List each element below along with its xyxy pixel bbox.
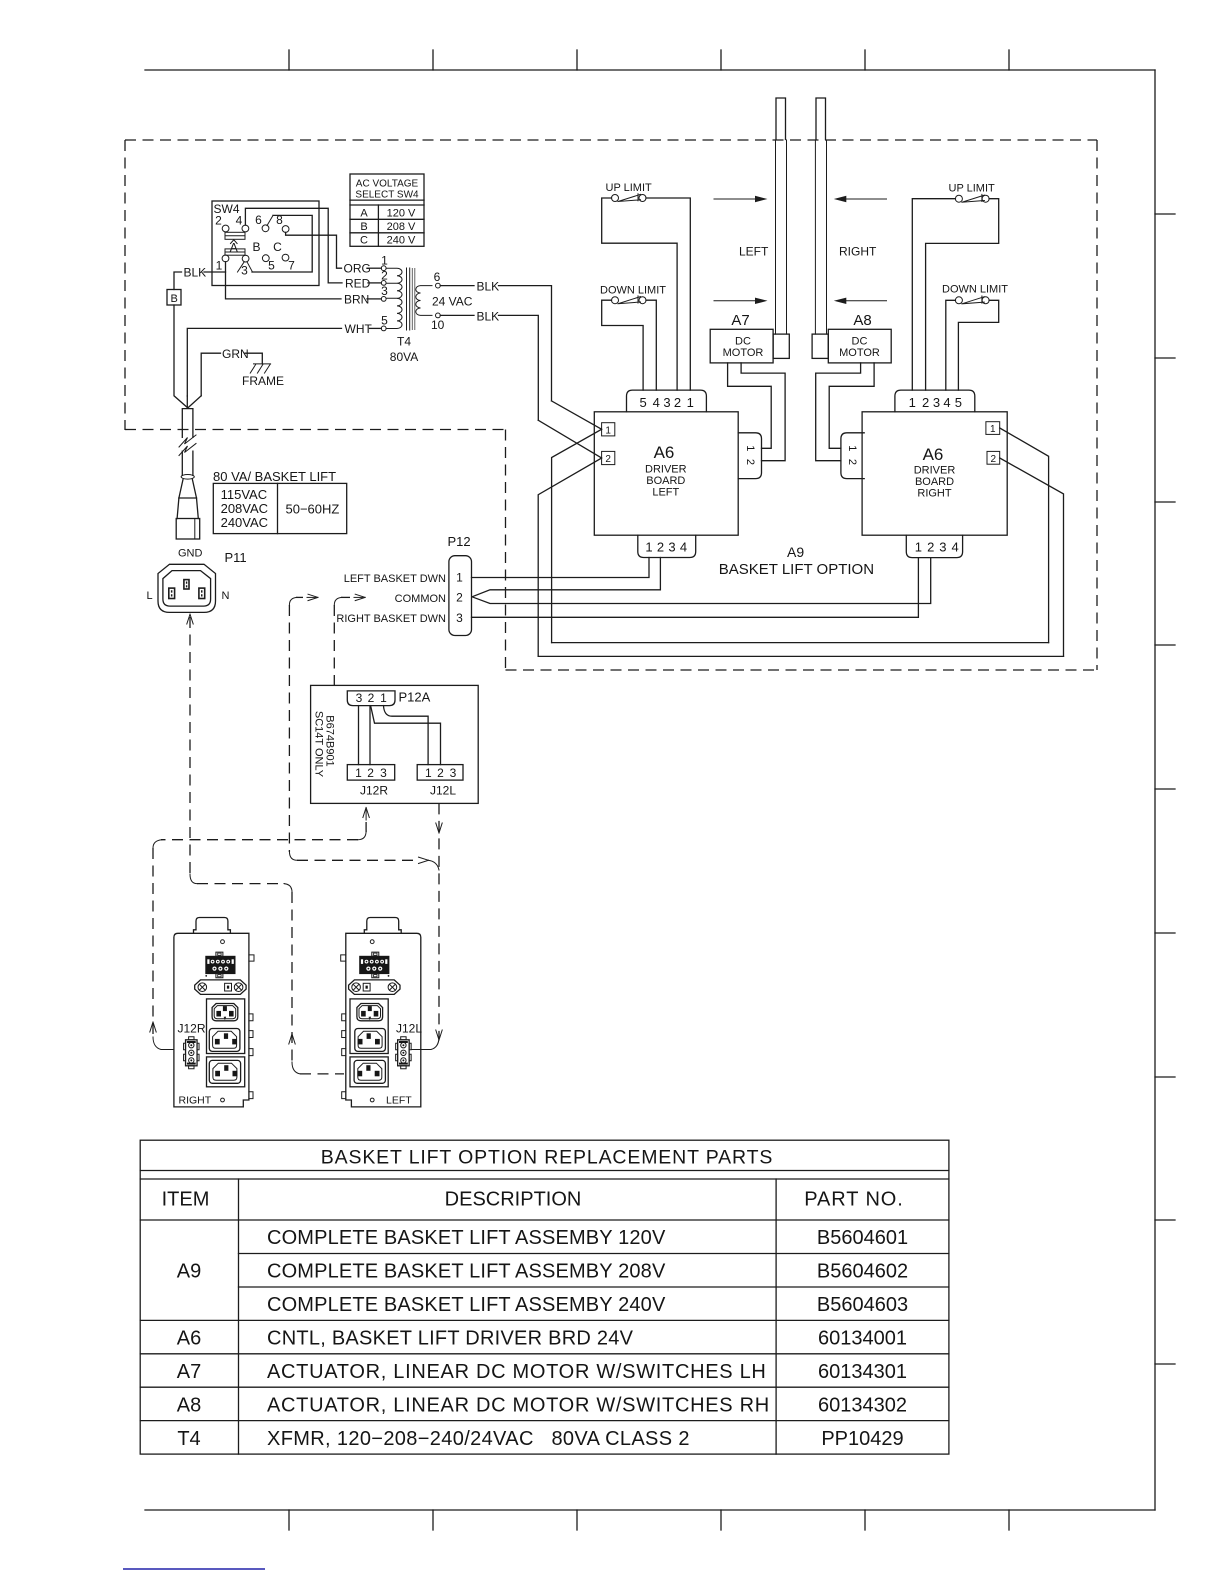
80VA ratings box <box>213 483 346 533</box>
80VA ratings divider <box>277 483 279 533</box>
parts table row rule 240V/A6 <box>140 1319 949 1321</box>
motor A7 box <box>710 329 773 363</box>
wire SW4 pin8 to ORG <box>286 232 342 268</box>
svg-text:WHT: WHT <box>345 322 373 336</box>
SW4 position caret <box>231 240 238 244</box>
svg-text:C: C <box>273 240 282 254</box>
switch SW4 outer box <box>212 201 319 286</box>
wire A8 terminal2 to tab pin1 <box>829 363 874 448</box>
wire DOWN LIMIT left-contact to pin4 <box>946 300 956 390</box>
svg-text:2: 2 <box>744 459 756 465</box>
svg-text:J12R: J12R <box>360 784 388 798</box>
border tick bottom 1 <box>288 1510 290 1530</box>
svg-text:BOARD: BOARD <box>915 476 954 488</box>
arrow down-row right <box>841 300 887 302</box>
wire A7 terminal1 to tab pin1 <box>728 363 772 448</box>
motor A7 rail clamp <box>773 334 789 358</box>
svg-text:COMMON: COMMON <box>395 593 446 605</box>
svg-text:2: 2 <box>437 766 444 780</box>
SW4 pin3 lever legs <box>238 262 253 272</box>
svg-text:1: 1 <box>744 445 756 451</box>
svg-text:T4: T4 <box>177 1428 200 1450</box>
svg-text:LEFT: LEFT <box>652 487 679 499</box>
svg-text:7: 7 <box>288 259 295 273</box>
wire COMMON arrow to right board bottom pin2 <box>472 558 931 604</box>
power cord strain relief <box>179 479 197 498</box>
svg-text:A8: A8 <box>177 1395 201 1417</box>
svg-text:ACTUATOR, LINEAR DC MOTOR: ACTUATOR, LINEAR DC MOTOR W/SWITCHES RH <box>267 1395 770 1417</box>
dashed hook direction arrow <box>419 857 429 863</box>
svg-text:2: 2 <box>927 540 934 555</box>
dashed hook arrow to COMMON (left) <box>308 594 318 600</box>
SW4 pin 4 <box>242 225 249 232</box>
driver board right A6 body <box>862 412 1007 535</box>
svg-text:80 VA/ BASKET LIFT: 80 VA/ BASKET LIFT <box>213 469 336 484</box>
svg-text:RIGHT: RIGHT <box>179 1095 212 1107</box>
svg-text:5: 5 <box>955 395 962 410</box>
transformer T4 pin 5 <box>381 326 386 331</box>
svg-text:A6: A6 <box>923 445 944 464</box>
svg-text:4: 4 <box>943 395 950 410</box>
wire B down to cord <box>174 305 187 408</box>
svg-text:1: 1 <box>909 395 916 410</box>
svg-text:DRIVER: DRIVER <box>914 465 956 477</box>
wire A7 terminal2 to tab pin2 <box>741 363 785 461</box>
border tick right 4 <box>1155 644 1175 646</box>
wire P12A pin1 to J12L pin1 <box>384 706 429 765</box>
dashed cable P11 arrow <box>187 614 193 624</box>
AC voltage select row divider A/B <box>350 218 424 220</box>
transformer T4 pin 6 <box>436 283 441 288</box>
wire RED to T4 pin2 <box>368 282 381 284</box>
left lift rail cap <box>776 98 786 140</box>
SW4 pin6 lever <box>267 215 273 225</box>
distribution module LEFT (mirrored) <box>341 918 421 1107</box>
svg-text:1: 1 <box>990 424 996 435</box>
dashed cable adapter J12R to right module <box>363 808 369 818</box>
wire P12A pin2 to J12R pin2 <box>369 706 371 765</box>
wire P12 pin1 to left board bottom pin1 <box>472 558 650 578</box>
wire WHT segment to T4 pin5 <box>370 327 382 329</box>
switch UP LIMIT left lever <box>618 194 641 202</box>
border tick top 2 <box>432 50 434 70</box>
border tick bottom 4 <box>720 1510 722 1530</box>
svg-text:J12L: J12L <box>430 784 456 798</box>
svg-text:A6: A6 <box>177 1328 201 1350</box>
connector J12R (adapter) box <box>347 765 394 781</box>
A9 option dashed boundary right <box>1096 140 1098 670</box>
svg-text:4: 4 <box>680 540 687 555</box>
svg-text:MOTOR: MOTOR <box>723 347 764 359</box>
wire ORG to T4 pin1 <box>367 267 381 269</box>
motor A8 rail clamp <box>812 334 828 358</box>
svg-text:50−60HZ: 50−60HZ <box>286 502 340 517</box>
svg-text:240 V: 240 V <box>387 235 416 247</box>
svg-text:B5604602: B5604602 <box>817 1261 908 1283</box>
svg-text:2: 2 <box>215 214 222 228</box>
svg-text:3: 3 <box>933 395 940 410</box>
dashed cable direction arrow (to module J12R) <box>150 1022 156 1032</box>
sheet border bottom <box>145 1509 1155 1511</box>
wire BLK bottom diagonal into left board terminal 2 <box>538 420 601 458</box>
svg-text:RED: RED <box>345 277 371 291</box>
svg-text:C: C <box>360 235 368 247</box>
svg-text:DC: DC <box>852 336 868 348</box>
svg-text:1: 1 <box>687 395 694 410</box>
wire P12 pin3 to right board bottom pin1 <box>472 558 919 618</box>
connector J12L (adapter) box <box>417 765 463 781</box>
driver board left terminal box 2 <box>602 451 615 464</box>
AC voltage select header rule 2 <box>350 204 424 206</box>
svg-text:1: 1 <box>915 540 922 555</box>
svg-text:ITEM: ITEM <box>162 1189 210 1211</box>
SW4 pin 8 <box>282 226 289 233</box>
dashed corner into J12L cable <box>428 860 439 870</box>
connector P11 outer face <box>158 564 216 612</box>
svg-text:5: 5 <box>268 259 275 273</box>
border tick right 8 <box>1155 1219 1175 1221</box>
svg-text:3: 3 <box>668 540 675 555</box>
svg-text:RIGHT: RIGHT <box>917 488 952 500</box>
svg-text:A9: A9 <box>177 1261 201 1283</box>
svg-text:BRN: BRN <box>344 292 369 306</box>
wire BLK to SW4 pin1 net <box>204 271 226 273</box>
svg-text:UP LIMIT: UP LIMIT <box>949 183 996 195</box>
svg-text:1: 1 <box>645 540 652 555</box>
power cord break symbol <box>181 438 196 451</box>
border tick right 9 <box>1155 1363 1175 1365</box>
svg-text:P12A: P12A <box>399 690 431 705</box>
connector P11 N pin <box>199 588 205 598</box>
driver board right terminal box 2 <box>987 451 1000 464</box>
border tick right 2 <box>1155 357 1175 359</box>
power cord jacket <box>182 409 193 476</box>
transformer T4 pin 1 <box>381 266 386 271</box>
wire P12A pin2 branch to J12L pin2 <box>371 707 441 765</box>
wire BLK elbow to B <box>174 272 182 290</box>
switch UP LIMIT right lever <box>962 194 985 202</box>
switch DOWN LIMIT left lever <box>618 296 641 304</box>
border tick top 4 <box>720 50 722 70</box>
svg-text:COMPLETE BASKET LIFT ASSEMB: COMPLETE BASKET LIFT ASSEMBY 208V <box>267 1261 666 1283</box>
parts table header row rule <box>140 1219 949 1221</box>
wire BLK top to board (vertical) <box>499 286 552 401</box>
switch UP LIMIT left contacts <box>612 195 619 202</box>
parts table outer frame <box>140 1140 949 1454</box>
driver board left side connector (1 2) <box>738 433 761 479</box>
wire P12A pin3 to J12R pin1 <box>358 706 360 765</box>
border tick right 5 <box>1155 788 1175 790</box>
power cord collar <box>181 475 194 480</box>
svg-text:P12: P12 <box>448 534 471 549</box>
parts table title rule 1 <box>140 1170 949 1172</box>
svg-text:A7: A7 <box>177 1361 201 1383</box>
svg-text:SELECT SW4: SELECT SW4 <box>355 190 419 201</box>
svg-text:5: 5 <box>381 314 388 328</box>
svg-text:2: 2 <box>674 395 681 410</box>
power cord plug taper <box>177 498 198 519</box>
connector P11 ground pin <box>184 580 189 589</box>
svg-text:AC VOLTAGE: AC VOLTAGE <box>356 179 419 190</box>
SW4 pin 1 <box>222 255 229 262</box>
border tick top 3 <box>576 50 578 70</box>
svg-text:LEFT BASKET DWN: LEFT BASKET DWN <box>344 573 446 585</box>
svg-text:80VA: 80VA <box>390 350 418 364</box>
dashed J12L direction arrow lower <box>436 1030 442 1040</box>
A9 option dashed boundary lower-left horizontal <box>125 429 506 431</box>
svg-text:24 VAC: 24 VAC <box>432 295 473 309</box>
wire UP LIMIT right-contact to pin2 <box>926 199 999 390</box>
border tick right 3 <box>1155 501 1175 503</box>
svg-text:5: 5 <box>639 395 646 410</box>
border tick top 5 <box>864 50 866 70</box>
AC voltage select header rule 1 <box>350 199 424 201</box>
parts table column divider item <box>238 1179 240 1454</box>
svg-text:3: 3 <box>380 766 387 780</box>
svg-text:J12R: J12R <box>178 1022 206 1036</box>
transformer T4 pin 2 <box>381 281 386 286</box>
wire BLK top diagonal into left board terminal 1 <box>552 401 602 429</box>
svg-text:MOTOR: MOTOR <box>839 347 880 359</box>
parts table title rule 2 <box>140 1178 949 1180</box>
AC voltage select table box <box>350 174 424 246</box>
svg-text:DOWN LIMIT: DOWN LIMIT <box>942 284 1008 296</box>
svg-text:3: 3 <box>663 395 670 410</box>
border tick bottom 3 <box>576 1510 578 1530</box>
A9 option dashed boundary mid vertical <box>505 430 507 671</box>
transformer T4 secondary winding <box>416 286 432 316</box>
transformer T4 primary winding <box>386 268 402 328</box>
parts table row rule A8/T4 <box>140 1420 949 1422</box>
wire BRN to T4 pin3 <box>367 298 381 300</box>
transformer T4 pin 10 <box>436 313 441 318</box>
dashed cable adapter J12L to left module <box>438 803 440 1038</box>
svg-text:B5604601: B5604601 <box>817 1227 908 1249</box>
svg-text:BLK: BLK <box>184 266 207 280</box>
right lift rail cap <box>816 98 826 140</box>
svg-text:A: A <box>360 207 368 219</box>
svg-text:DC: DC <box>735 336 751 348</box>
driver board left top connector <box>627 390 707 412</box>
svg-text:115VAC: 115VAC <box>221 487 268 502</box>
border tick top 1 <box>288 50 290 70</box>
dashed hook arrow to COMMON (right) <box>355 594 365 600</box>
driver board right top connector <box>895 390 975 412</box>
svg-text:1: 1 <box>381 254 388 268</box>
SW4 pin 5 <box>262 255 269 262</box>
driver board left A6 body <box>594 412 738 535</box>
wire UP LIMIT left to pin2 <box>602 198 677 390</box>
svg-text:T4: T4 <box>397 335 411 349</box>
svg-text:B: B <box>252 240 260 254</box>
power cord converging wires <box>187 396 201 408</box>
border tick right 1 <box>1155 213 1175 215</box>
AC voltage select row divider B/C <box>350 232 424 234</box>
border tick right 6 <box>1155 932 1175 934</box>
svg-text:A9: A9 <box>787 544 804 560</box>
transformer T4 core <box>407 268 410 330</box>
parts table row rule A6/A7 <box>140 1353 949 1355</box>
svg-text:208VAC: 208VAC <box>221 501 268 516</box>
A9 option dashed boundary bottom <box>506 669 1098 671</box>
wire WHT horizontal from cord <box>187 328 341 396</box>
svg-text:B5604603: B5604603 <box>817 1294 908 1316</box>
svg-text:1: 1 <box>605 426 611 437</box>
svg-text:BASKET LIFT OPTION REPLACEM: BASKET LIFT OPTION REPLACEMENT PARTS <box>321 1147 774 1169</box>
svg-text:2: 2 <box>605 454 611 465</box>
svg-text:COMPLETE BASKET LIFT ASSEMB: COMPLETE BASKET LIFT ASSEMBY 240V <box>267 1294 666 1316</box>
svg-text:BLK: BLK <box>477 280 500 294</box>
parts table column divider part no <box>775 1179 777 1454</box>
wire DOWN LIMIT right-contact to pin5 <box>958 300 998 390</box>
wire A8 terminal1 to tab pin2 <box>816 363 861 461</box>
svg-text:60134301: 60134301 <box>818 1361 907 1383</box>
SW4 pin 2 <box>222 225 229 232</box>
connector J12R (module) <box>184 1037 200 1069</box>
sheet border top <box>145 69 1155 71</box>
SW4 pin 7 <box>282 254 289 261</box>
svg-text:DRIVER: DRIVER <box>645 464 687 476</box>
svg-text:LEFT: LEFT <box>739 245 769 259</box>
parts table row rule A7/A8 <box>140 1386 949 1388</box>
svg-text:A6: A6 <box>654 443 675 462</box>
svg-text:1: 1 <box>425 766 432 780</box>
left lift rail <box>776 140 787 334</box>
svg-text:J12L: J12L <box>396 1022 422 1036</box>
svg-text:A7: A7 <box>731 312 749 329</box>
svg-text:240VAC: 240VAC <box>221 515 268 530</box>
wire SW4 pin4 to RED <box>245 208 342 283</box>
switch UP LIMIT right contacts <box>955 195 962 202</box>
svg-text:B: B <box>171 293 178 305</box>
AC voltage select column divider <box>377 205 379 246</box>
right lift rail <box>815 140 826 334</box>
svg-text:3: 3 <box>450 766 457 780</box>
SW4 pin 6 <box>262 225 269 232</box>
wire BLK 24VAC bottom from pin10 <box>440 314 474 316</box>
A9 option dashed boundary left <box>124 140 126 430</box>
wire UP LIMIT left-contact to pin1 <box>912 199 955 390</box>
svg-text:6: 6 <box>434 270 441 284</box>
wire DOWN LIMIT right to pin4 <box>646 300 656 390</box>
svg-text:3: 3 <box>456 611 463 625</box>
svg-text:4: 4 <box>236 214 243 228</box>
switch DOWN LIMIT left contacts <box>612 297 619 304</box>
driver board right bottom connector <box>906 535 962 557</box>
svg-text:8: 8 <box>276 213 283 227</box>
svg-text:120 V: 120 V <box>387 207 416 219</box>
border tick bottom 6 <box>1008 1510 1010 1530</box>
connector P12 body <box>449 556 472 636</box>
parts table row rule 208V/240V <box>239 1286 949 1288</box>
A9 option dashed boundary top <box>125 139 1097 141</box>
wire BLK bottom to board (vertical) <box>499 315 539 420</box>
connector P11 L pin <box>169 588 175 598</box>
border tick bottom 5 <box>864 1510 866 1530</box>
wire right terminal1 diagonal <box>1000 428 1049 643</box>
wire BLK 24VAC top from pin6 <box>440 285 474 287</box>
transformer T4 pin 3 <box>381 297 386 302</box>
wire left terminal2 to 24VAC bus B <box>538 458 601 656</box>
adapter harness box (SC14T) <box>311 685 479 803</box>
svg-text:FRAME: FRAME <box>242 374 284 388</box>
power cord plug body <box>176 519 200 540</box>
svg-text:2: 2 <box>657 540 664 555</box>
arrow down-row left <box>714 300 760 302</box>
sheet border right <box>1154 70 1156 1510</box>
border tick bottom 2 <box>432 1510 434 1530</box>
arrow up-row left <box>714 198 760 200</box>
node B boxed label <box>167 290 181 306</box>
svg-text:1: 1 <box>456 571 463 585</box>
connector P11 inner face <box>163 571 211 607</box>
switch DOWN LIMIT right contacts <box>955 297 962 304</box>
driver board left bottom connector <box>638 535 696 557</box>
svg-text:P11: P11 <box>225 550 247 565</box>
svg-text:2: 2 <box>991 454 997 465</box>
wire 24VAC bus A horizontal <box>552 642 1049 644</box>
svg-text:60134001: 60134001 <box>818 1328 907 1350</box>
svg-text:4: 4 <box>951 540 958 555</box>
wire COMMON arrow to left board bottom pin2 <box>472 558 660 597</box>
distribution module RIGHT <box>174 918 254 1107</box>
wire right terminal2 diagonal <box>1000 458 1064 656</box>
svg-text:3: 3 <box>381 284 388 298</box>
svg-text:BLK: BLK <box>477 309 500 323</box>
svg-text:1: 1 <box>216 259 223 273</box>
svg-text:2: 2 <box>456 591 463 605</box>
svg-text:RIGHT: RIGHT <box>839 245 877 259</box>
svg-text:PART NO.: PART NO. <box>804 1189 903 1211</box>
switch DOWN LIMIT right lever <box>962 296 985 304</box>
wire 24VAC bus B horizontal <box>538 655 1063 657</box>
footer link line <box>123 1568 265 1570</box>
svg-text:DESCRIPTION: DESCRIPTION <box>445 1189 582 1211</box>
svg-text:B: B <box>360 221 367 233</box>
svg-text:PP10429: PP10429 <box>821 1428 903 1450</box>
wire DOWN LIMIT left to pin5 <box>602 300 643 390</box>
svg-text:ACTUATOR, LINEAR DC MOTOR: ACTUATOR, LINEAR DC MOTOR W/SWITCHES LH <box>267 1361 767 1383</box>
connector J12L (module) <box>396 1037 412 1069</box>
wire GRN to frame ground <box>245 353 262 364</box>
svg-text:2: 2 <box>381 269 388 283</box>
svg-text:1: 1 <box>355 766 362 780</box>
svg-text:LEFT: LEFT <box>386 1095 412 1107</box>
svg-text:SC14T ONLY: SC14T ONLY <box>313 711 325 778</box>
svg-text:10: 10 <box>431 318 445 332</box>
svg-text:1: 1 <box>380 691 387 705</box>
svg-text:L: L <box>147 590 153 602</box>
svg-text:1: 1 <box>846 445 858 451</box>
SW4 inner box (selector path) <box>252 215 312 272</box>
svg-text:UP LIMIT: UP LIMIT <box>606 182 653 194</box>
svg-text:2: 2 <box>368 691 375 705</box>
driver board left terminal box 1 <box>602 423 615 436</box>
SW4 jumper bar A bottom <box>225 249 245 255</box>
connector P12A body <box>347 691 395 706</box>
svg-text:A8: A8 <box>853 312 871 329</box>
driver board right terminal box 1 <box>986 422 1000 435</box>
svg-text:BASKET LIFT OPTION: BASKET LIFT OPTION <box>719 561 874 578</box>
svg-text:COMPLETE BASKET LIFT ASSEMB: COMPLETE BASKET LIFT ASSEMBY 120V <box>267 1227 666 1249</box>
svg-text:BOARD: BOARD <box>646 475 685 487</box>
svg-text:DOWN LIMIT: DOWN LIMIT <box>600 285 666 297</box>
svg-text:CNTL, BASKET LIFT DRIVER B: CNTL, BASKET LIFT DRIVER BRD 24V <box>267 1328 634 1350</box>
wire SW4 pin1 to BRN <box>226 262 342 299</box>
dashed J12L direction arrow upper <box>436 823 442 833</box>
SW4 pin 3 <box>242 255 249 262</box>
svg-text:208 V: 208 V <box>387 221 416 233</box>
